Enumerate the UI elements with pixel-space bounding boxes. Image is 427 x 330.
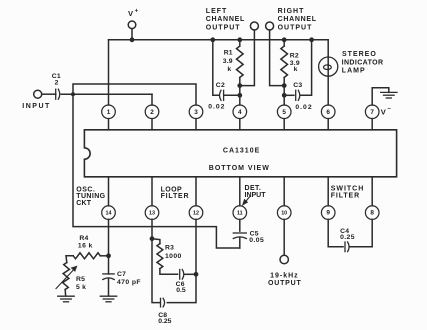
label C3 [293,82,302,89]
pin 4 [233,105,247,119]
label C7 value [117,271,141,286]
wire C6 to pin12 [184,273,196,275]
svg-text:3: 3 [194,109,198,116]
wire C7 to ground [108,278,110,295]
resistor R5 (variable) [63,263,70,296]
pin 3 [189,105,203,119]
capacitor C8 [161,298,165,307]
junction R1 bottom [238,84,242,88]
label R2 value [290,53,300,74]
svg-text:STEREO: STEREO [342,51,377,58]
label R4 value [78,235,93,249]
svg-text:RIGHT: RIGHT [278,8,305,15]
label STEREO INDICATOR LAMP [342,51,384,74]
pin 10 [277,206,291,220]
svg-text:R4: R4 [79,235,88,242]
ground at C7 [100,296,116,302]
label R1 value [223,49,233,73]
label C3 value [295,104,312,111]
wire lamp to pin 6 [327,76,329,105]
svg-text:CHANNEL: CHANNEL [278,16,317,23]
capacitor C2 [220,90,224,100]
wire pin10 down [283,219,285,255]
svg-text:5: 5 [282,109,286,116]
capacitor C4 [345,242,349,252]
capacitor C3 [296,90,300,100]
svg-text:19-kHz: 19-kHz [270,272,299,279]
stereo indicator lamp [319,57,338,76]
label C1 value [52,73,61,86]
label V- [381,107,391,117]
junction bus R2 [282,38,286,42]
label LEFT CHANNEL OUTPUT [206,8,245,31]
right channel output terminal [266,22,274,30]
svg-text:FILTER: FILTER [331,192,360,199]
svg-text:0.05: 0.05 [249,237,264,244]
svg-text:1000: 1000 [165,253,182,260]
svg-text:R3: R3 [165,244,174,251]
svg-text:13: 13 [149,211,155,217]
svg-text:0.02: 0.02 [208,104,225,111]
svg-text:2: 2 [55,80,59,87]
svg-text:8: 8 [370,210,374,217]
wire pin12 down [167,219,196,302]
wire pin7 to ground [372,88,389,105]
wire right output drop [270,30,285,86]
svg-text:0.5: 0.5 [176,287,186,294]
label RIGHT CHANNEL OUTPUT [278,8,317,31]
pin 1 [102,105,116,119]
junction bus C3 branch [310,38,314,42]
svg-text:2: 2 [150,109,154,116]
label BOTTOM VIEW [209,165,270,172]
19-kHz output terminal [280,255,288,263]
svg-text:OUTPUT: OUTPUT [268,280,302,287]
svg-text:0.25: 0.25 [158,318,171,325]
junction C6 pin12 [194,272,198,276]
junction bus C2 branch [211,38,215,42]
resistor R3 [152,239,178,275]
svg-text:4: 4 [238,109,242,116]
svg-text:FILTER: FILTER [161,193,190,200]
svg-text:k: k [294,66,298,73]
svg-text:6: 6 [326,109,330,116]
label C2 value [208,104,225,111]
arrow R5 wiper [56,266,77,288]
junction bus R1 [238,38,242,42]
wire C3 branch [300,40,311,96]
wire bus to lamp [327,40,329,57]
resistor R2 [281,40,288,86]
svg-text:470 pF: 470 pF [117,279,141,286]
wire pin14 down [108,219,110,274]
svg-text:LAMP: LAMP [342,67,366,74]
pin 9 [321,206,335,220]
label C6 value [176,281,186,294]
svg-text:+: + [135,9,139,15]
capacitor C6 [180,270,184,280]
op-amp U1 CA1310E body [84,130,396,177]
wire input to C1 [42,93,56,95]
pin 7 [365,105,379,119]
svg-text:INPUT: INPUT [245,192,267,199]
label C5 value [249,230,264,244]
svg-text:C3: C3 [293,82,302,89]
svg-text:12: 12 [193,211,199,217]
wire V+ bus [109,39,329,41]
wire C2 branch [213,40,219,96]
junction R2 bottom [282,84,286,88]
label R5 value [76,276,86,291]
capacitor C1 [56,89,60,99]
svg-text:C2: C2 [216,82,225,89]
wire pin2 drop [151,94,153,105]
svg-text:C7: C7 [117,271,126,278]
wire C5 down [239,237,241,248]
svg-text:R5: R5 [76,276,85,283]
wire C2 to pin4 line [224,94,239,96]
wire R2 to pin 5 [283,86,285,105]
left channel output terminal [250,22,258,30]
svg-text:INDICATOR: INDICATOR [342,60,384,67]
svg-text:BOTTOM VIEW: BOTTOM VIEW [209,165,270,172]
svg-text:3.9: 3.9 [223,58,233,65]
junction C2 pin4 [238,93,242,97]
svg-text:16 k: 16 k [78,242,93,249]
resistor R4 [66,253,109,263]
label 19-kHz OUTPUT [268,272,302,287]
svg-text:R2: R2 [290,53,299,60]
wire pin9 to C4 [328,219,343,246]
junction R3 pin13 [150,237,154,241]
pin 14 [102,206,116,220]
label OSC TUNING CKT [76,186,105,207]
ground at R5 [58,296,74,302]
svg-text:OUTPUT: OUTPUT [278,24,313,31]
svg-text:10: 10 [281,211,287,217]
svg-text:OUTPUT: OUTPUT [206,24,241,31]
pin 8 [365,206,379,220]
ground at pin 7 [381,92,397,98]
label LOOP FILTER [161,186,190,200]
pin 11 [233,206,247,220]
capacitor C7 [103,274,114,280]
pin 12 [189,206,203,220]
label INPUT [22,103,51,110]
svg-text:7: 7 [370,109,374,116]
svg-text:11: 11 [237,211,243,217]
wire input to pin 3 [73,84,196,105]
label R3 value [165,244,182,259]
V+ supply terminal [128,21,136,40]
wire left output drop [240,30,255,86]
IC pin stubs [109,119,373,206]
wire C4 to pin8 [350,219,372,246]
svg-text:5 k: 5 k [76,284,86,291]
wire input loop to C5 [73,94,240,248]
label C2 [216,82,225,89]
svg-text:LEFT: LEFT [206,8,228,15]
pin 5 [277,105,291,119]
label C4 value [340,228,355,241]
svg-text:0.02: 0.02 [295,104,312,111]
svg-text:k: k [227,66,231,73]
wire bus corner to pin 1 [108,40,110,105]
wire C3 to pin5 line [284,94,294,96]
svg-text:INPUT: INPUT [22,103,51,110]
svg-text:0.25: 0.25 [340,234,355,241]
svg-text:1: 1 [107,109,111,116]
arrow det input [243,197,250,205]
resistor R1 [237,40,244,86]
svg-text:CA1310E: CA1310E [223,147,260,154]
pin 13 [145,206,159,220]
label SWITCH FILTER [331,186,365,200]
label C8 value [158,312,171,325]
label CA1310E [223,147,260,154]
svg-text:CKT: CKT [76,200,92,207]
wire C1 to pin 2 [61,93,152,95]
svg-text:R1: R1 [224,49,233,56]
svg-text:CHANNEL: CHANNEL [206,16,245,23]
wire R1 to pin 4 [239,86,241,105]
junction C3 pin5 [282,93,286,97]
svg-text:−: − [387,107,391,113]
input terminal [34,90,42,98]
wire pin11 to C5 [239,219,241,231]
wire pin13 down [152,219,160,302]
wire input node down-branch junction [72,93,75,96]
junction R4 pin14 [107,254,111,258]
capacitor C5 [233,233,246,239]
label V+ [128,9,139,18]
svg-text:9: 9 [326,210,330,217]
label DET. INPUT [245,185,267,199]
svg-text:14: 14 [106,211,112,217]
junction V+ stub [130,38,134,42]
pin 6 [321,105,335,119]
pin 2 [145,105,159,119]
